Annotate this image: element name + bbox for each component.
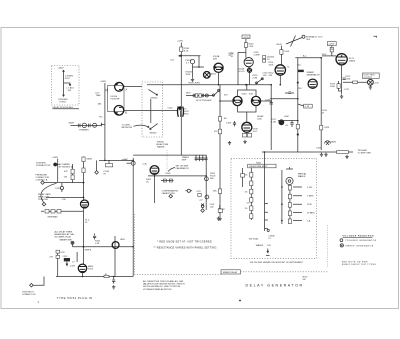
wire cathode V161A bbox=[218, 72, 220, 84]
svg-text:100K: 100K bbox=[284, 116, 289, 118]
svg-text:TRIG: TRIG bbox=[184, 114, 189, 116]
resistor R160D bbox=[250, 198, 253, 203]
capacitor C122 bbox=[88, 124, 90, 128]
svg-text:150K: 150K bbox=[284, 51, 289, 53]
svg-text:TVC: TVC bbox=[99, 117, 104, 119]
svg-text:47K: 47K bbox=[224, 95, 228, 97]
wire plates V160 bbox=[238, 85, 257, 97]
lamp annotation diagonals bbox=[286, 36, 302, 47]
trimmer C160E bbox=[242, 168, 244, 187]
resistor R160A bbox=[250, 173, 253, 178]
jack J168 gate out bbox=[325, 141, 331, 145]
legend trigger generator symbol bbox=[340, 239, 343, 242]
ground (divider) bbox=[228, 141, 231, 145]
svg-text:470K: 470K bbox=[324, 127, 329, 129]
connector diamond (trig input) bbox=[30, 283, 34, 287]
tube V169 cathode follower bbox=[242, 122, 252, 132]
resistor R165 bbox=[296, 124, 299, 129]
connector J178 bbox=[368, 79, 374, 85]
svg-text:R160: R160 bbox=[166, 173, 172, 175]
bus screen supply bbox=[147, 84, 271, 86]
mechanical link to switch bbox=[241, 271, 328, 273]
capacitor C161B bbox=[190, 59, 194, 63]
mechanical link (dotted riser) bbox=[326, 225, 328, 268]
wire grid net bbox=[322, 55, 336, 57]
svg-text:.01: .01 bbox=[285, 125, 289, 127]
svg-text:SW 160 F&R VIEWED FROM FRONT O: SW 160 F&R VIEWED FROM FRONT OF INSTRUME… bbox=[250, 262, 304, 264]
svg-text:1%: 1% bbox=[245, 192, 248, 194]
svg-text:GATE: GATE bbox=[331, 141, 337, 144]
svg-text:C168: C168 bbox=[226, 123, 232, 125]
svg-text:1M: 1M bbox=[64, 177, 67, 179]
wire clamp plate bbox=[280, 46, 282, 65]
wire gate column bbox=[132, 158, 134, 277]
ganged control box sweep delay bbox=[221, 270, 241, 274]
resistor R160C bbox=[250, 189, 253, 194]
svg-text:TRIG: TRIG bbox=[186, 93, 191, 95]
resistor R168 bbox=[320, 125, 323, 130]
resistor pair (2)100K bbox=[263, 56, 266, 59]
capacitor C118 input bbox=[105, 88, 109, 93]
svg-text:A-C: A-C bbox=[303, 55, 307, 58]
wire +225V plate supply bbox=[180, 43, 182, 156]
jack J160 bbox=[131, 161, 135, 165]
svg-text:30 MEG: 30 MEG bbox=[307, 213, 315, 215]
svg-text:GATE: GATE bbox=[87, 158, 93, 161]
capacitor pair compensation bbox=[163, 179, 166, 182]
capacitor C135 trimmer bbox=[205, 94, 208, 97]
wire leader to wafer bbox=[134, 125, 150, 127]
svg-text:4.5-25: 4.5-25 bbox=[239, 71, 246, 73]
trigger coupling chain bbox=[186, 95, 213, 97]
svg-text:TAC: TAC bbox=[98, 103, 103, 106]
svg-text:C7: C7 bbox=[72, 262, 76, 264]
svg-text:SN: SN bbox=[303, 279, 306, 281]
svg-text:1.2M: 1.2M bbox=[307, 187, 312, 189]
switch SW160 wiper upper bbox=[148, 89, 157, 95]
svg-text:** RESISTANCE VARIES WITH PANE: ** RESISTANCE VARIES WITH PANEL SETTING bbox=[154, 247, 217, 250]
bias divider column bbox=[72, 164, 74, 183]
capacitor C175 bbox=[343, 78, 346, 79]
bus timing cap bbox=[270, 85, 272, 150]
triode V160A multivibrator bbox=[233, 96, 242, 105]
capacitor C124 bbox=[101, 123, 105, 126]
svg-text:100K: 100K bbox=[345, 79, 350, 81]
svg-text:B161: B161 bbox=[211, 74, 217, 76]
svg-text:TIME: TIME bbox=[96, 95, 102, 97]
boxed test value bbox=[304, 104, 313, 108]
diode V125A cathode blob bbox=[115, 83, 118, 86]
resistor R161A bbox=[288, 185, 291, 190]
svg-text:1.6K: 1.6K bbox=[95, 243, 100, 245]
svg-text:47K: 47K bbox=[269, 75, 273, 77]
svg-text:7-45: 7-45 bbox=[267, 245, 272, 247]
neon lamp L175 bbox=[302, 35, 305, 38]
wire clamp output bbox=[279, 75, 281, 85]
svg-text:C160: C160 bbox=[168, 108, 174, 110]
svg-text:100K: 100K bbox=[269, 65, 274, 67]
arrow to rear bbox=[267, 249, 269, 253]
resistor R140 270K bbox=[244, 43, 247, 48]
svg-text:POINT: POINT bbox=[60, 102, 67, 104]
tube V131 blocking bbox=[81, 200, 89, 208]
svg-text:SWP/MAG: SWP/MAG bbox=[48, 216, 58, 219]
svg-text:2-7: 2-7 bbox=[268, 238, 272, 240]
connector diamond (gate in) bbox=[95, 171, 99, 175]
svg-text:12AU6: 12AU6 bbox=[349, 60, 356, 63]
svg-text:BY KNOB: BY KNOB bbox=[59, 166, 69, 168]
resistor R310 bbox=[56, 250, 60, 253]
svg-text:+350V: +350V bbox=[100, 81, 107, 83]
wire arrow to dly'd sweep bbox=[179, 55, 181, 57]
capacitor C316 bbox=[112, 277, 115, 284]
svg-text:4.7K: 4.7K bbox=[197, 191, 202, 193]
svg-text:8.2K: 8.2K bbox=[184, 51, 189, 53]
svg-text:1%: 1% bbox=[245, 208, 248, 210]
terminal tick bbox=[266, 254, 270, 256]
svg-text:B: B bbox=[125, 112, 127, 115]
svg-text:16: 16 bbox=[85, 222, 88, 224]
resistor R133a bbox=[195, 94, 198, 97]
gate amp net bbox=[133, 154, 206, 156]
svg-text:50% AMPLITUDE: 50% AMPLITUDE bbox=[55, 236, 72, 239]
node +225V (clamp) bbox=[242, 35, 250, 39]
resistor R134 bbox=[82, 157, 85, 162]
ground (J178) bbox=[369, 85, 372, 89]
svg-text:C132: C132 bbox=[55, 188, 61, 190]
resistor R160F bbox=[250, 214, 253, 219]
svg-text:82: 82 bbox=[223, 209, 226, 211]
wire plate node bbox=[179, 55, 201, 57]
switch rotor SW160B bbox=[286, 177, 293, 184]
wire curved branch bbox=[41, 183, 57, 202]
mark sheet ref bbox=[374, 36, 377, 37]
delay-pickoff adjustment dashed enclosure bbox=[52, 66, 80, 106]
capacitor C133 bbox=[193, 94, 194, 97]
svg-text:6C4: 6C4 bbox=[253, 131, 258, 133]
svg-text:275K: 275K bbox=[307, 204, 312, 206]
svg-text:CONTACT A: CONTACT A bbox=[36, 179, 48, 182]
resistor R137b bbox=[71, 175, 74, 180]
resistor R163 bbox=[198, 193, 201, 196]
svg-text:100K: 100K bbox=[330, 86, 335, 88]
wire wafer stub bbox=[150, 99, 152, 123]
svg-text:* RED KNOB SET AT -NOT TRIGGE: * RED KNOB SET AT -NOT TRIGGERED bbox=[157, 240, 212, 243]
svg-text:+4.6: +4.6 bbox=[297, 65, 302, 67]
potentiometer R118 wiper bbox=[64, 83, 71, 86]
resistor R172 bbox=[330, 47, 333, 52]
capacitor trimmer row (TVC) bbox=[71, 124, 102, 126]
node +225V (output amp) bbox=[327, 42, 336, 46]
capacitor C163 bbox=[187, 189, 190, 192]
wire plate branch bbox=[193, 56, 205, 67]
wire gate lower bbox=[83, 208, 85, 264]
svg-text:OUTPUT: OUTPUT bbox=[364, 77, 373, 79]
svg-text:TYPE 53/54 PLUG-IN: TYPE 53/54 PLUG-IN bbox=[57, 296, 93, 300]
svg-text:6U8: 6U8 bbox=[249, 94, 254, 96]
contact stubs wafer 2 bbox=[293, 187, 302, 221]
svg-text:C169: C169 bbox=[316, 148, 322, 150]
capacitor C160A bbox=[205, 177, 209, 181]
net swp b bbox=[73, 246, 134, 248]
tube V175 comparator bbox=[308, 79, 317, 88]
resistor R161B bbox=[288, 194, 291, 199]
resistor R144 bbox=[218, 117, 221, 122]
resistor R135 bbox=[82, 168, 85, 173]
svg-text:VOLTAGES READ AS NOTED.: VOLTAGES READ AS NOTED. bbox=[143, 288, 172, 291]
boxed label dlyd trig out bbox=[362, 73, 379, 78]
capacitor C160B bbox=[205, 195, 209, 199]
coupling column bbox=[76, 252, 78, 262]
svg-text:+350V: +350V bbox=[58, 68, 65, 70]
trimmer C150A (dark) bbox=[247, 68, 252, 73]
svg-text:DLYD TRIGGER: DLYD TRIGGER bbox=[196, 100, 212, 102]
svg-text:2.2M: 2.2M bbox=[253, 78, 258, 80]
svg-text:TRIG LEVEL: TRIG LEVEL bbox=[188, 83, 201, 85]
gate output column bbox=[320, 58, 322, 150]
resistor R161E bbox=[288, 219, 291, 224]
mechanical link (dotted) bbox=[166, 151, 168, 172]
capacitor C134 bbox=[202, 94, 203, 97]
capacitor C160C bbox=[201, 205, 204, 208]
svg-text:+225V: +225V bbox=[177, 41, 184, 43]
wire plate A to range switch bbox=[123, 86, 142, 88]
dashed enclosure SW160 timing assembly bbox=[231, 158, 317, 258]
svg-text:2.2M: 2.2M bbox=[271, 122, 276, 124]
diode V125B envelope bbox=[114, 106, 124, 116]
junction X bbox=[201, 204, 204, 207]
resistor R153 (solid box) bbox=[298, 70, 304, 72]
svg-text:TRIMMER: TRIMMER bbox=[79, 130, 89, 132]
svg-text:100K: 100K bbox=[257, 119, 262, 121]
test point B161 bbox=[204, 72, 211, 79]
svg-text:SW160: SW160 bbox=[151, 98, 159, 100]
ground (C316) bbox=[112, 285, 115, 289]
capacitor C168 bbox=[233, 121, 236, 127]
resistor R130 series bbox=[105, 164, 112, 167]
svg-text:1%: 1% bbox=[245, 175, 248, 177]
svg-text:+ 8V: + 8V bbox=[49, 257, 54, 259]
tube V173 dlyd trig regen bbox=[336, 54, 347, 65]
svg-text:C312: C312 bbox=[63, 256, 69, 258]
capacitor C121 bbox=[82, 123, 86, 127]
divider chain column bbox=[250, 168, 252, 220]
svg-text:150K: 150K bbox=[186, 74, 191, 76]
timing column bbox=[205, 155, 207, 210]
mechanical link dashed vertical bbox=[133, 214, 135, 274]
wire +225V drop bbox=[246, 39, 249, 68]
svg-text:COMP: COMP bbox=[254, 55, 261, 57]
net sweep compensation bbox=[148, 175, 206, 177]
wire plate branch multi bbox=[238, 52, 246, 84]
ground (R161B) bbox=[191, 78, 194, 82]
svg-text:OFF: OFF bbox=[306, 39, 311, 41]
legend sweep generator symbol bbox=[340, 244, 343, 247]
arrow bias bbox=[66, 262, 68, 266]
svg-text:TO SWP GEN: TO SWP GEN bbox=[358, 152, 372, 154]
svg-text:.001: .001 bbox=[263, 75, 268, 77]
svg-text:SWP B: SWP B bbox=[85, 250, 92, 252]
switch SW135 contacts bbox=[213, 90, 220, 96]
test point TP132 bbox=[71, 241, 74, 244]
wire pickoff divider bbox=[63, 70, 65, 97]
resistor R159 bbox=[218, 209, 222, 212]
resistor R169 boxed pair bbox=[242, 133, 246, 137]
svg-text:WAFER: WAFER bbox=[298, 175, 306, 178]
trigger bus upper bbox=[295, 57, 321, 59]
connector diamond (timing) bbox=[201, 209, 205, 213]
bottom net bbox=[56, 276, 133, 278]
connector diamond (comp) bbox=[169, 194, 173, 198]
svg-text:B JA: B JA bbox=[69, 166, 74, 169]
svg-text:.01: .01 bbox=[246, 203, 250, 205]
svg-text:.005: .005 bbox=[210, 207, 215, 209]
diode V125B cathode blob bbox=[115, 112, 118, 115]
resistor R176 100K bbox=[337, 84, 340, 89]
trigger amplifier V168 (shielded) bbox=[178, 107, 184, 117]
range chain column bbox=[289, 185, 291, 224]
ground (V173) bbox=[340, 95, 343, 99]
wire cathode to net bbox=[82, 273, 84, 277]
svg-text:-1.35: -1.35 bbox=[304, 106, 310, 108]
wire grid left V160A bbox=[220, 100, 233, 102]
svg-text:56K: 56K bbox=[213, 191, 217, 193]
svg-text:DELAY-TIME MULT.: DELAY-TIME MULT. bbox=[249, 165, 268, 168]
svg-text:ALL RESISTORS 1/2W 10% AND ALL: ALL RESISTORS 1/2W 10% AND ALL CAP. bbox=[143, 280, 184, 283]
capacitor C132 bbox=[60, 186, 63, 189]
capacitor C123 trimmer bbox=[93, 123, 97, 127]
triode V160B multivibrator bbox=[251, 96, 260, 105]
svg-text:1.5K: 1.5K bbox=[62, 199, 67, 201]
tube V314 half bbox=[112, 242, 119, 249]
net comparator lower bbox=[278, 120, 298, 122]
divider column bottom-left bbox=[57, 250, 59, 277]
svg-text:-150V: -150V bbox=[70, 266, 76, 268]
svg-text:18: 18 bbox=[231, 56, 234, 58]
resistor R179 series bbox=[337, 151, 349, 154]
capacitor C158 bbox=[218, 205, 221, 213]
capacitor C312 (solid) bbox=[64, 258, 70, 261]
mechanical link dashed horizontal bbox=[134, 273, 221, 275]
contact circle bbox=[267, 229, 269, 231]
timing capacitor bank bbox=[196, 155, 206, 161]
resistor R145 bbox=[218, 129, 221, 134]
svg-text:56K: 56K bbox=[210, 178, 214, 180]
junction dot (trig B) bbox=[83, 197, 85, 199]
svg-text:SEMICONDUCTOR TYPES: SEMICONDUCTOR TYPES bbox=[342, 264, 377, 266]
capacitor C146 bbox=[270, 103, 273, 105]
diode V125A envelope bbox=[115, 82, 124, 91]
svg-text:10K: 10K bbox=[68, 90, 72, 92]
horizontal net comparator bbox=[270, 98, 298, 100]
svg-text:+225V: +225V bbox=[243, 37, 250, 39]
switch SW160 wiper lower bbox=[150, 124, 158, 130]
svg-text:1K: 1K bbox=[146, 182, 149, 184]
svg-text:+22: +22 bbox=[199, 199, 203, 201]
tube V313 output cf bbox=[78, 264, 86, 272]
wire comp to bus bbox=[249, 73, 251, 85]
junction dot (swp b) bbox=[83, 246, 85, 248]
wire trig A net bbox=[44, 182, 83, 184]
capacitor C161 net bbox=[286, 167, 293, 169]
svg-text:CALIBRATOR: CALIBRATOR bbox=[176, 167, 190, 170]
gate amp input net bbox=[99, 159, 133, 161]
switch wiper comp bbox=[256, 78, 263, 83]
capacitor C344 bbox=[93, 234, 96, 240]
svg-text:6U8: 6U8 bbox=[213, 59, 218, 61]
pushbutton SW131 bbox=[53, 163, 57, 167]
resistor R150 150K bbox=[280, 50, 283, 55]
svg-text:VALUES IN UUF UNLESS NOTED. SW: VALUES IN UUF UNLESS NOTED. SWITCH bbox=[143, 283, 185, 286]
svg-text:2.4U: 2.4U bbox=[143, 164, 148, 166]
wafer bus 1 bbox=[264, 152, 266, 231]
triode V161A pickoff amplifier bbox=[214, 63, 223, 72]
capacitor C147 bbox=[285, 92, 294, 93]
ground (left column) bbox=[218, 217, 221, 221]
terminal dot bbox=[297, 133, 299, 135]
svg-text:22K: 22K bbox=[298, 88, 302, 90]
resistor R171 2.2M (dark cathode) bbox=[279, 119, 285, 125]
svg-text:+350V: +350V bbox=[52, 157, 59, 159]
resistor R160E bbox=[250, 206, 253, 211]
svg-text:RANGE: RANGE bbox=[157, 146, 165, 149]
wire pushbutton bbox=[57, 159, 59, 182]
svg-text:SW 160 SHOWN IN 1 USEC POSITIO: SW 160 SHOWN IN 1 USEC POSITION. bbox=[143, 286, 181, 288]
svg-text:+150: +150 bbox=[374, 83, 380, 85]
svg-text:SWEEP GENERATOR: SWEEP GENERATOR bbox=[345, 244, 374, 247]
resistor R137a bbox=[71, 169, 74, 174]
svg-text:WAFER: WAFER bbox=[256, 244, 264, 247]
tube V152 comparator diode bbox=[244, 58, 253, 67]
pickoff diode network box bbox=[108, 86, 125, 112]
tube V162 gate amp bbox=[150, 166, 159, 175]
svg-text:47K: 47K bbox=[64, 171, 68, 173]
dashed enclosure SW160 range wafer bbox=[142, 82, 163, 137]
wire plate B to trigger amplifier bbox=[124, 110, 178, 112]
ground (V169 cathode) bbox=[243, 140, 246, 144]
resistor R161C bbox=[288, 203, 291, 208]
svg-text:A: A bbox=[126, 89, 128, 92]
svg-text:+350V: +350V bbox=[276, 44, 283, 46]
switch ladder SW300 bbox=[45, 210, 49, 214]
svg-text:GRN: GRN bbox=[120, 239, 125, 241]
wafer feed bus bbox=[281, 170, 283, 224]
svg-text:DELAY GENERATOR: DELAY GENERATOR bbox=[246, 284, 304, 288]
svg-text:SWP: SWP bbox=[182, 159, 187, 161]
bus +350V delay-time pickoff bbox=[104, 83, 106, 160]
wire output plate bbox=[331, 46, 333, 56]
svg-text:1 MEG: 1 MEG bbox=[307, 196, 314, 198]
center mark bbox=[239, 300, 241, 302]
svg-text:270K: 270K bbox=[249, 46, 254, 48]
output tap column bbox=[114, 236, 116, 277]
svg-text:IN: IN bbox=[104, 174, 107, 176]
wire trig B net bbox=[46, 196, 84, 198]
wire cathode V173 bbox=[341, 65, 343, 94]
connector diamond (trig A) bbox=[41, 181, 45, 185]
svg-text:DELAY PICKOFF ADJ.: DELAY PICKOFF ADJ. bbox=[53, 106, 75, 109]
svg-text:1%: 1% bbox=[267, 59, 270, 61]
svg-text:47K: 47K bbox=[330, 49, 334, 51]
ground (C158) bbox=[217, 217, 220, 221]
svg-text:SWEEP DELAY: SWEEP DELAY bbox=[223, 271, 238, 274]
svg-text:V313: V313 bbox=[88, 269, 94, 271]
svg-text:8.2K: 8.2K bbox=[61, 252, 66, 254]
svg-text:C175: C175 bbox=[344, 89, 350, 91]
svg-text:PUSH SW: PUSH SW bbox=[38, 199, 48, 201]
wire cathodes V160 common bbox=[238, 106, 257, 122]
svg-text:CL: CL bbox=[287, 67, 291, 69]
